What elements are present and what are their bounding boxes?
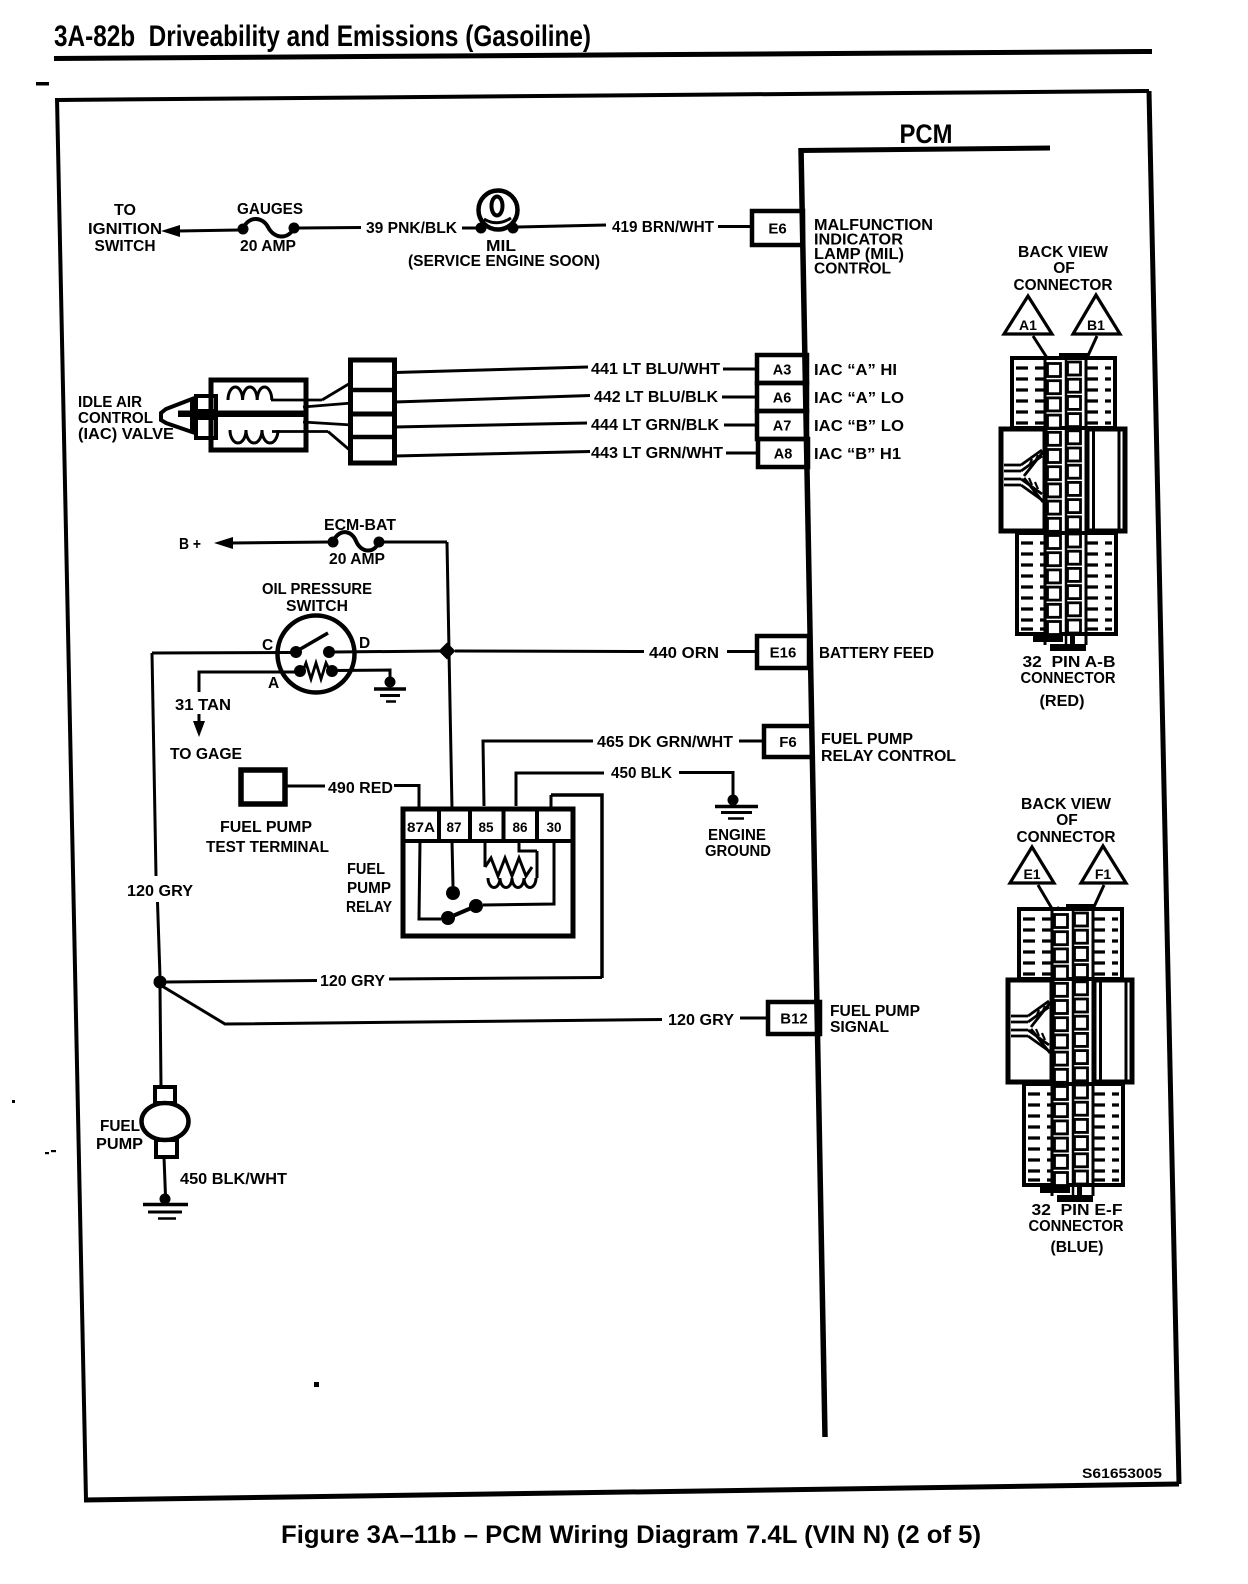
svg-text:IAC “A” HI: IAC “A” HI: [814, 362, 897, 379]
svg-text:444 LT GRN/BLK: 444 LT GRN/BLK: [591, 417, 720, 434]
callout triangle A1: [1004, 296, 1052, 334]
svg-text:120 GRY: 120 GRY: [127, 883, 194, 900]
IAC valve body: [211, 380, 306, 450]
PCM pin A6: [757, 383, 807, 411]
svg-text:CONNECTOR: CONNECTOR: [1021, 670, 1116, 687]
svg-text:20 AMP: 20 AMP: [329, 551, 385, 568]
PCM pin A3: [757, 355, 807, 383]
svg-text:E1: E1: [1023, 866, 1040, 882]
svg-text:FUEL PUMP: FUEL PUMP: [830, 1003, 920, 1020]
header rule: [54, 52, 1152, 59]
wire to ignition switch (arrow left): [161, 225, 180, 237]
arrow E1 to pin: [1038, 885, 1054, 912]
OPS contact C: [290, 646, 302, 658]
fuel pump test terminal box: [241, 770, 285, 804]
relay coil 86 stem: [519, 841, 537, 851]
wire to pin A6: [722, 396, 757, 399]
PCM pin E16: [757, 636, 809, 668]
svg-text:(BLUE): (BLUE): [1051, 1239, 1104, 1256]
svg-text:Figure 3A–11b – PCM Wiring Dia: Figure 3A–11b – PCM Wiring Diagram 7.4L …: [281, 1521, 981, 1549]
svg-text:TEST TERMINAL: TEST TERMINAL: [206, 839, 329, 856]
IAC valve shaft: [178, 411, 306, 418]
svg-text:E6: E6: [768, 221, 786, 238]
32-pin A-B connector body (red): [1001, 353, 1125, 651]
wire to pin A3: [723, 368, 757, 371]
svg-text:450 BLK: 450 BLK: [611, 765, 673, 782]
junction (fuse drop / battery feed): [439, 643, 456, 660]
svg-text:20 AMP: 20 AMP: [240, 238, 296, 255]
svg-text:RELAY CONTROL: RELAY CONTROL: [821, 748, 956, 765]
connector top key tab: [1059, 353, 1088, 361]
wire IAC B-HI 443: [395, 452, 590, 457]
connector key feature: [1004, 464, 1021, 467]
svg-text:(RED): (RED): [1040, 693, 1085, 710]
svg-text:A7: A7: [773, 419, 792, 435]
wire to pin E16: [727, 650, 757, 653]
wire label to MIL lamp: [462, 227, 479, 230]
junction 120 GRY: [154, 976, 167, 989]
arrow down to gage: [198, 714, 201, 727]
wire to pin A7: [724, 424, 757, 427]
svg-text:440 ORN: 440 ORN: [649, 645, 719, 662]
svg-text:FUEL: FUEL: [347, 861, 385, 878]
diagram border top: [57, 91, 1149, 100]
svg-text:B +: B +: [179, 536, 201, 553]
connector pin channel: [1044, 360, 1047, 645]
PCM pin E6: [752, 211, 803, 245]
connector bottom shell (hatched): [1017, 533, 1116, 634]
wire fuse to MIL: [299, 226, 361, 230]
svg-text:OF: OF: [1053, 260, 1075, 277]
svg-text:TO: TO: [114, 202, 136, 219]
svg-text:BATTERY FEED: BATTERY FEED: [819, 645, 934, 662]
svg-text:B1: B1: [1087, 317, 1105, 333]
wire OPS D to junction: [334, 651, 443, 652]
wire OPS A to 31 TAN: [199, 672, 298, 692]
connector right wing: [1087, 429, 1125, 531]
relay internal 87 lead: [452, 841, 453, 886]
OPS contact D: [323, 646, 335, 658]
svg-text:D: D: [359, 635, 370, 652]
wire 490 RED to relay 87A: [394, 786, 419, 810]
svg-text:PCM: PCM: [900, 119, 953, 149]
wire junction down to fuel pump: [160, 988, 161, 1087]
left riser 120 GRY (upper): [152, 653, 156, 876]
oil pressure switch body: [278, 616, 355, 693]
connector pin squares: [1048, 364, 1061, 377]
wire relay 85 up to 465: [483, 741, 593, 806]
margin tick: [36, 82, 49, 86]
svg-text:IDLE AIR: IDLE AIR: [78, 394, 142, 411]
wire OPS resistor to ground: [334, 670, 390, 679]
svg-text:ECM-BAT: ECM-BAT: [324, 517, 397, 534]
relay switch arm: [448, 906, 476, 918]
svg-text:31 TAN: 31 TAN: [175, 697, 231, 714]
wire 87 drop from junction: [449, 651, 452, 809]
PCM pin B12: [768, 1002, 820, 1034]
ground symbol (fuel pump): [160, 1194, 171, 1205]
wire to pin F6: [739, 740, 764, 743]
diagram border bottom: [84, 1484, 1179, 1500]
fuel pump motor: [155, 1087, 175, 1103]
OPS sender contacts and resistor: [294, 665, 306, 677]
svg-text:E16: E16: [770, 645, 797, 662]
PCM pin F6: [764, 726, 812, 757]
wire IAC A-LO 442: [395, 396, 590, 403]
svg-text:IAC “B” H1: IAC “B” H1: [814, 446, 901, 463]
svg-text:FUEL: FUEL: [100, 1118, 140, 1135]
svg-text:87: 87: [446, 820, 461, 835]
svg-text:120 GRY: 120 GRY: [320, 973, 386, 990]
svg-text:419 BRN/WHT: 419 BRN/WHT: [612, 219, 715, 236]
svg-text:SWITCH: SWITCH: [95, 238, 156, 255]
wire relay 86 up to 450 BLK: [516, 773, 604, 806]
svg-text:39 PNK/BLK: 39 PNK/BLK: [366, 220, 458, 237]
svg-text:IAC “A” LO: IAC “A” LO: [814, 390, 904, 407]
MIL lamp (indicator bulb): [479, 191, 518, 230]
wire OPS C to left riser: [152, 651, 291, 655]
svg-text:F6: F6: [779, 734, 797, 751]
svg-text:441 LT BLU/WHT: 441 LT BLU/WHT: [591, 361, 721, 378]
svg-text:GROUND: GROUND: [705, 843, 771, 860]
wire to pin B12: [740, 1017, 768, 1020]
connector top shell (hatched): [1012, 358, 1115, 428]
svg-text:FUEL PUMP: FUEL PUMP: [821, 731, 913, 748]
fuse ECM-BAT 20 AMP: [328, 537, 339, 548]
svg-text:(SERVICE ENGINE SOON): (SERVICE ENGINE SOON): [408, 253, 600, 270]
wire to pin E6: [718, 225, 752, 228]
IAC valve collar: [196, 396, 216, 411]
diagram border left: [57, 98, 86, 1500]
wire to pin A8: [726, 452, 758, 455]
connector left wing: [1001, 429, 1045, 531]
callout triangle F1: [1081, 846, 1126, 883]
fuel pump relay box: [403, 809, 573, 936]
svg-text:PUMP: PUMP: [96, 1136, 143, 1153]
svg-text:OIL PRESSURE: OIL PRESSURE: [262, 581, 372, 598]
margin speck 3: [51, 1150, 56, 1152]
wire B+ (arrow left): [214, 537, 233, 549]
svg-text:A3: A3: [773, 363, 792, 379]
svg-text:A: A: [268, 675, 279, 692]
svg-text:PUMP: PUMP: [347, 880, 391, 897]
PCM pin A8: [758, 439, 808, 467]
svg-text:442 LT BLU/BLK: 442 LT BLU/BLK: [594, 389, 719, 406]
IAC coil A: [228, 387, 272, 400]
wire fuse to corner and down to junction: [379, 541, 447, 544]
wire IAC B-LO 444: [395, 423, 587, 427]
32-pin E-F connector body (blue): [1008, 904, 1132, 1202]
svg-text:A8: A8: [774, 447, 793, 463]
margin speck 1: [12, 1100, 15, 1103]
callout triangle B1: [1073, 295, 1120, 334]
left riser 120 GRY (lower): [158, 902, 161, 977]
svg-text:(IAC) VALVE: (IAC) VALVE: [78, 426, 174, 443]
wire pump to ground: [164, 1157, 166, 1196]
wire junction to 440 ORN: [455, 650, 644, 654]
wire MIL to 419 label: [518, 225, 606, 227]
wire test terminal to 490 RED: [285, 785, 325, 788]
relay arm to pin 30: [483, 841, 554, 905]
wire IAC A-HI 441: [395, 367, 588, 373]
relay coil (zigzag): [484, 841, 487, 867]
svg-text:465 DK GRN/WHT: 465 DK GRN/WHT: [597, 734, 734, 751]
engine ground symbol: [715, 805, 758, 809]
svg-text:IGNITION: IGNITION: [88, 221, 162, 238]
svg-text:3A-82b Driveability and Emiss: 3A-82b Driveability and Emissions (Gasoi…: [54, 20, 591, 53]
svg-text:A1: A1: [1019, 317, 1037, 333]
svg-text:TO GAGE: TO GAGE: [170, 746, 242, 763]
IAC connector block: [351, 360, 395, 463]
svg-text:IAC “B” LO: IAC “B” LO: [814, 418, 904, 435]
IAC coil B: [230, 430, 278, 443]
svg-text:CONTROL: CONTROL: [814, 261, 891, 278]
ground symbol (OPS): [374, 687, 406, 691]
svg-text:120 GRY: 120 GRY: [668, 1012, 735, 1029]
svg-text:SWITCH: SWITCH: [286, 598, 348, 615]
margin speck 2: [45, 1152, 49, 1154]
svg-text:85: 85: [478, 820, 494, 835]
stray scan speck: [314, 1382, 319, 1387]
callout triangle E1: [1010, 847, 1054, 883]
OPS switch arm: [297, 633, 328, 651]
connector bottom tab: [1033, 634, 1063, 642]
PCM box top edge: [799, 148, 1050, 151]
wire junction diagonal to B12 row: [162, 986, 662, 1024]
diagram border right: [1149, 91, 1179, 1484]
relay internal 87A lead: [419, 841, 441, 919]
svg-text:ENGINE: ENGINE: [708, 827, 766, 844]
arrow B1 to pin: [1086, 336, 1097, 360]
IAC valve pintle cone: [161, 399, 192, 432]
svg-text:RELAY: RELAY: [346, 899, 393, 916]
svg-text:OF: OF: [1056, 812, 1078, 829]
fuse GAUGES 20 AMP: [238, 224, 249, 235]
arrow A1 to pin: [1033, 336, 1051, 364]
relay pin row divider: [403, 839, 573, 843]
svg-text:86: 86: [512, 820, 528, 835]
svg-text:SIGNAL: SIGNAL: [830, 1019, 889, 1036]
svg-text:F1: F1: [1095, 866, 1112, 882]
svg-text:CONTROL: CONTROL: [78, 410, 153, 427]
svg-text:BACK VIEW: BACK VIEW: [1021, 796, 1111, 813]
svg-text:443 LT GRN/WHT: 443 LT GRN/WHT: [591, 445, 724, 462]
IAC leads to connector: [271, 399, 322, 402]
svg-text:87A: 87A: [407, 820, 435, 835]
svg-text:BACK VIEW: BACK VIEW: [1018, 244, 1108, 261]
PCM main vertical line: [801, 148, 825, 1437]
svg-text:FUEL PUMP: FUEL PUMP: [220, 819, 312, 836]
svg-text:B12: B12: [780, 1011, 808, 1028]
PCM pin A7: [757, 411, 807, 439]
svg-text:GAUGES: GAUGES: [237, 201, 303, 218]
svg-text:CONNECTOR: CONNECTOR: [1029, 1218, 1124, 1235]
svg-text:32 PIN A-B: 32 PIN A-B: [1023, 654, 1116, 671]
svg-text:32 PIN E-F: 32 PIN E-F: [1032, 1202, 1123, 1219]
svg-text:450 BLK/WHT: 450 BLK/WHT: [180, 1171, 288, 1188]
wire 120 GRY to relay corner: [389, 978, 602, 980]
svg-text:CONNECTOR: CONNECTOR: [1017, 829, 1116, 846]
svg-text:490 RED: 490 RED: [328, 780, 393, 797]
wire pin 30 up and right: [550, 795, 553, 809]
wire 450 BLK to engine ground: [679, 773, 733, 798]
svg-text:A6: A6: [773, 391, 792, 407]
svg-text:CONNECTOR: CONNECTOR: [1014, 277, 1113, 294]
wire junction to 120 GRY (relay): [166, 981, 317, 983]
svg-text:S61653005: S61653005: [1082, 1465, 1162, 1481]
svg-text:30: 30: [546, 820, 561, 835]
arrow F1 to pin: [1093, 885, 1104, 909]
relay coil (loops): [488, 878, 536, 888]
